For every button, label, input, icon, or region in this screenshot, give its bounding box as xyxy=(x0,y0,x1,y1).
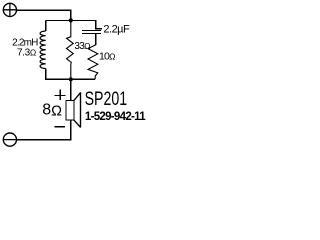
capacitor C1 2.2µF plates xyxy=(82,31,101,34)
wire node B down to speaker xyxy=(70,79,72,100)
svg-text:33Ω: 33Ω xyxy=(74,41,90,52)
svg-text:8Ω: 8Ω xyxy=(42,102,62,120)
speaker SP201 body xyxy=(66,100,74,120)
terminal TP- (negative input) xyxy=(3,133,16,146)
resistor R1 33Ω xyxy=(67,20,74,79)
wire speaker to bottom rail xyxy=(17,120,71,140)
polarity minus xyxy=(54,126,65,128)
terminal TP+ (positive input) xyxy=(3,3,16,16)
svg-text:2.2µF: 2.2µF xyxy=(103,23,130,35)
leader dash to capacitor label xyxy=(96,28,102,30)
wire input top xyxy=(17,10,71,19)
svg-text:7.3Ω: 7.3Ω xyxy=(17,47,36,58)
polarity plus xyxy=(55,89,66,100)
wire node A left to inductor xyxy=(46,19,71,21)
resistor R2 10Ω xyxy=(88,45,98,80)
inductor L1 xyxy=(40,31,46,69)
node B xyxy=(69,77,73,81)
svg-text:1-529-942-11: 1-529-942-11 xyxy=(85,111,146,123)
node A xyxy=(69,18,73,22)
wire capacitor to resistor R2 xyxy=(95,34,97,45)
wire bottom rail right xyxy=(71,78,95,80)
speaker cone xyxy=(74,92,81,127)
wire inductor leads xyxy=(46,20,71,79)
svg-text:SP201: SP201 xyxy=(85,88,128,110)
svg-text:10Ω: 10Ω xyxy=(99,50,115,62)
wire node A right to capacitor xyxy=(71,20,96,29)
